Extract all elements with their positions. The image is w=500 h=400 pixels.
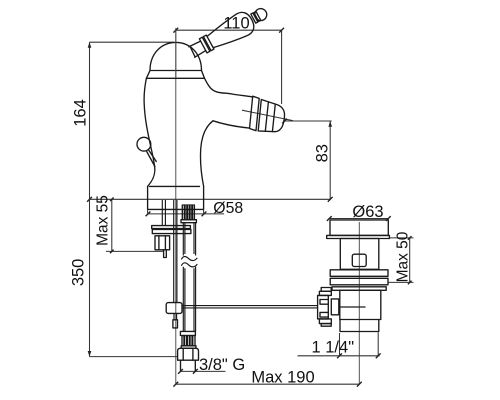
supply thread [182, 336, 195, 346]
deck reference line [90, 198, 331, 200]
drain clamp notch 2 [320, 312, 328, 317]
svg-text:83: 83 [313, 144, 331, 162]
rod below clevis [174, 313, 177, 319]
drain flange lip [327, 235, 390, 238]
rod line inside drain body [340, 306, 365, 308]
dimension 110 [173, 15, 284, 104]
dimension Max 190 [173, 368, 361, 386]
drain clamp knob body [318, 295, 329, 319]
drain body [340, 290, 381, 319]
threaded shank hatched [181, 205, 196, 223]
svg-text:110: 110 [223, 15, 249, 33]
washer plate bar 2 [152, 229, 191, 233]
body left edge [144, 78, 155, 186]
svg-text:1 1/4": 1 1/4" [312, 339, 355, 357]
dimension 164 [72, 42, 175, 202]
drain clamp bottom cap [319, 319, 331, 324]
svg-text:164: 164 [72, 99, 90, 127]
svg-text:Ø63: Ø63 [352, 203, 383, 221]
centerline over dome [175, 30, 177, 78]
dimension 83 [242, 110, 333, 202]
supply tube upper segment [183, 223, 195, 256]
pop-up rod [174, 200, 177, 303]
spout bottom edge [213, 121, 249, 128]
drain tailpipe [340, 320, 379, 332]
centerline drain [358, 222, 360, 384]
handle ball [253, 6, 269, 22]
handle boss [189, 41, 206, 58]
dimension O58 [146, 200, 244, 217]
aerator collar ring [250, 96, 260, 131]
rod end cap [173, 320, 178, 328]
drain flange [330, 220, 388, 236]
skirt [146, 71, 204, 79]
supply collar [180, 331, 195, 335]
drain ring 2 [330, 278, 388, 285]
svg-text:3/8" G: 3/8" G [199, 356, 245, 374]
mounting stud left pair [162, 200, 165, 226]
svg-text:Max 50: Max 50 [395, 231, 412, 282]
mounting nut [155, 236, 170, 258]
clevis block [166, 303, 182, 314]
handle neck band 2 [254, 11, 261, 21]
aerator body [258, 100, 284, 132]
washer plate bar 1 [152, 226, 191, 229]
svg-text:Max 190: Max 190 [251, 368, 314, 386]
handle neck band 1 [251, 13, 258, 23]
centerline faucet [175, 28, 177, 384]
svg-text:Max 55: Max 55 [95, 195, 112, 246]
handle ridge band 1 [199, 37, 210, 53]
drain clamp top step [321, 288, 331, 292]
dimension 1 1/4" [298, 332, 381, 358]
drain neck hole [352, 254, 366, 266]
drain clamp notch 1 [320, 300, 328, 305]
dimension Max 50 [388, 231, 413, 284]
faucet dome [146, 42, 204, 78]
drain ring 1 [330, 270, 388, 277]
supply thread washer [181, 346, 196, 349]
dimension Max 55 [95, 195, 164, 253]
dimension O63 [327, 203, 391, 221]
drain clamp connector [331, 299, 339, 315]
supply hex nut 3/8 [178, 348, 199, 360]
aerator divider 1 [265, 102, 268, 131]
svg-text:350: 350 [69, 259, 87, 287]
drain neck [340, 239, 379, 270]
drain ring 3 [332, 287, 386, 291]
supply tube lower segment [183, 267, 195, 332]
base cylinder [148, 186, 204, 209]
body right edge upper into spout [205, 78, 253, 97]
tube break squiggle [181, 256, 197, 260]
dimension 350 [69, 199, 177, 356]
dimension 3/8" G [178, 356, 245, 374]
svg-text:Ø58: Ø58 [213, 200, 243, 217]
handle ridge band 2 [203, 35, 214, 51]
handle lever group [186, 1, 272, 63]
body right edge lower [200, 121, 213, 187]
horizontal pop-up linkage [182, 306, 318, 308]
drain pull stem [147, 150, 157, 167]
drain pull ball [137, 137, 151, 151]
drain clamp bottom step [321, 324, 331, 327]
base shoulder [150, 185, 200, 187]
handle lever body [204, 9, 257, 53]
supply pipe end [181, 360, 196, 370]
drain clamp top cap [319, 291, 331, 295]
aerator divider 2 [272, 104, 275, 132]
